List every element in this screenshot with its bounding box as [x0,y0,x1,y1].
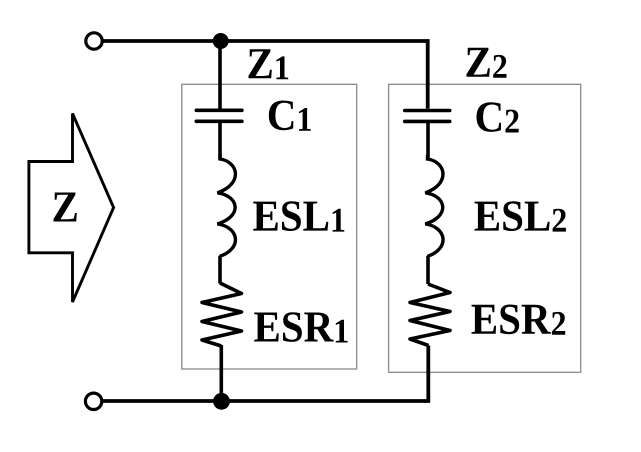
terminal bottom-left [85,393,101,409]
label ESL1 [253,201,344,231]
wire ESL2 to ESR2 [426,256,430,284]
node junction top [213,33,229,49]
label ESL2 [475,201,566,231]
label ESR1 [254,312,347,342]
arrow Z impedance indicator [29,114,114,303]
capacitor C2 [405,111,450,122]
inductor ESL1 [217,155,235,257]
wire C1 to ESL1 [218,123,222,159]
node junction bottom [213,393,230,410]
resistor ESR1 [202,283,242,346]
box Z2 branch outline [389,84,581,372]
capacitor C1 [196,110,242,121]
label Z in arrow [54,193,77,222]
label C2 [477,102,519,132]
wire branch1 bottom lead [220,345,224,401]
label Z1 [249,49,289,79]
label C1 [269,101,311,131]
box Z1 branch outline [182,84,357,369]
resistor ESR2 [410,284,450,346]
inductor ESL2 [425,155,443,257]
label Z2 [467,48,507,78]
terminal top-left [86,33,102,49]
wire C2 to ESL2 [426,123,430,159]
wire branch1 top lead [218,41,222,109]
wire ESL1 to ESR1 [218,256,222,284]
wire top bus [103,41,428,109]
wire bottom bus [103,346,428,402]
label ESR2 [472,305,566,335]
